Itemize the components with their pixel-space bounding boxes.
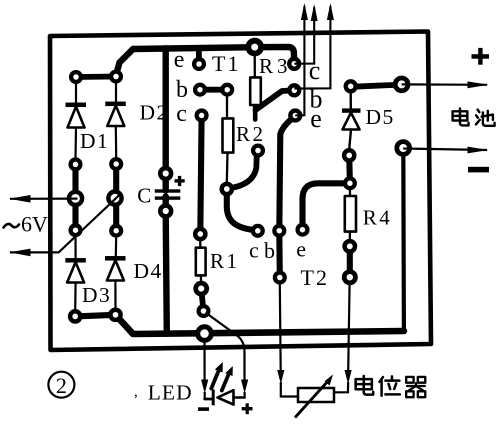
LED symbol — [198, 362, 253, 414]
svg-text:R1: R1 — [210, 249, 240, 273]
svg-text:e: e — [296, 236, 306, 261]
label 电池 (battery) — [453, 108, 495, 125]
pad D4 bottom — [110, 310, 120, 320]
diode D2 — [105, 81, 126, 159]
pad T2 e — [298, 225, 308, 235]
label ~6V — [4, 224, 20, 228]
wire R3 bottom stub — [253, 104, 258, 120]
pad D5 bottom — [344, 150, 354, 160]
pad R2 bottom — [222, 184, 232, 194]
resistor R1 — [196, 240, 206, 283]
pad C bottom — [160, 206, 171, 217]
wire T1 e stub — [196, 49, 202, 65]
svg-text:e: e — [174, 47, 185, 73]
svg-text:D5: D5 — [366, 105, 395, 129]
svg-text:C: C — [137, 184, 151, 208]
wire D5 bottom to pad35 — [346, 155, 353, 183]
svg-text:6V: 6V — [21, 211, 48, 236]
wire T1 b pads — [200, 87, 227, 93]
pad R4 bottom1 — [345, 241, 355, 251]
battery plus symbol — [472, 48, 490, 65]
svg-text:LED: LED — [148, 381, 193, 405]
wire e-right down to T2 b col — [279, 117, 295, 278]
wire top arrow e (line 1) — [295, 6, 304, 115]
wire ~6V lower diagonal — [10, 194, 121, 253]
wire minus pad vertical — [401, 148, 406, 331]
pad D4 top — [111, 226, 121, 236]
LED — [205, 398, 212, 401]
potentiometer body — [298, 388, 334, 402]
svg-text:2: 2 — [56, 373, 67, 398]
wire D3-D4 bottom pads — [75, 315, 115, 317]
pad T2 b — [274, 226, 284, 236]
pad D2 top — [111, 72, 121, 82]
svg-text:b: b — [264, 238, 275, 263]
svg-text:R2: R2 — [236, 122, 266, 146]
pad R1 bottom — [196, 283, 207, 294]
pad D2 bottom — [111, 159, 121, 169]
pad T2 c — [253, 226, 263, 236]
pad LED feed — [199, 306, 209, 316]
diode D5 — [342, 92, 361, 150]
svg-text:R4: R4 — [363, 206, 393, 230]
resistor R4 — [345, 189, 356, 241]
svg-text:D4: D4 — [134, 259, 163, 283]
wire ~6V upper — [10, 198, 78, 200]
svg-text:c: c — [249, 237, 259, 262]
wire R1 lower pads — [201, 289, 203, 311]
wire D2 pad riser — [116, 49, 133, 75]
pad D1 bottom — [71, 160, 81, 170]
svg-text:b: b — [176, 77, 188, 103]
figure number circle 2 — [48, 372, 74, 398]
pad D3 bottom — [70, 311, 80, 321]
wire T2 e elbow to pad35 — [303, 183, 350, 229]
pad on minus trace big — [198, 327, 212, 341]
pad T1 b right — [222, 85, 232, 95]
potentiometer arrow — [295, 381, 328, 418]
wire pot left lead — [279, 284, 282, 371]
wire R4 lower pads — [347, 246, 353, 277]
wire pot right lead — [348, 284, 349, 372]
diode D4 — [105, 236, 126, 309]
pad plus out big — [395, 78, 408, 91]
wire top arrow c (line 2) — [294, 7, 314, 64]
svg-text:D1: D1 — [80, 129, 109, 153]
pad C top — [160, 168, 171, 179]
pad R3 top big — [248, 41, 261, 54]
wire LED left lead — [203, 340, 205, 380]
wire R2 pad arc up to pad26 — [227, 156, 257, 189]
capacitor C — [155, 176, 185, 200]
pad AC left big — [69, 192, 82, 205]
svg-text:c: c — [309, 56, 321, 85]
pad e right — [290, 111, 300, 121]
pad b right — [289, 85, 299, 95]
pad 26 below R3 — [253, 146, 263, 156]
wire plus output arrow — [402, 83, 487, 86]
pad R1 top — [195, 229, 205, 239]
pad c right — [289, 59, 299, 69]
COMPONENT SYMBOLS & THIN LINES — [65, 53, 360, 311]
resistor R3 — [250, 53, 261, 105]
PADS — [69, 41, 410, 341]
diode D1 — [66, 81, 87, 159]
svg-text:e: e — [310, 104, 322, 133]
wire D5 top to plus pad — [351, 85, 402, 87]
diode D3 — [65, 236, 86, 311]
potentiometer — [295, 375, 334, 418]
pad minus out big — [397, 142, 410, 155]
pad below T2 b — [275, 273, 285, 283]
label 电位器 (potentiometer) — [356, 376, 426, 397]
pad elbow R4 top — [345, 178, 355, 188]
wire top arrow b (line 3) — [294, 6, 330, 89]
wire D2 col mid — [113, 164, 119, 231]
svg-text:,: , — [134, 384, 138, 400]
battery minus symbol — [468, 167, 489, 173]
wire R2 pad curve to T2 c — [227, 189, 258, 231]
svg-text:c: c — [176, 101, 187, 127]
pad AC right big — [108, 192, 121, 205]
pad R4 bottom2 — [344, 272, 355, 283]
pad T1 c — [197, 111, 207, 121]
pad T1 e — [194, 59, 204, 69]
svg-text:D2: D2 — [140, 100, 169, 124]
wire C column branch — [162, 48, 168, 190]
wire minus output arrow — [403, 149, 487, 151]
pad D1 top — [71, 72, 81, 82]
svg-text:D3: D3 — [82, 283, 111, 307]
wire D1-D2 top pads — [76, 74, 116, 80]
wire T1 c column — [200, 115, 201, 234]
board outline — [50, 32, 431, 351]
wire R3 diagonal to b pad — [256, 90, 295, 110]
resistor R2 — [223, 95, 234, 183]
wire top trace — [133, 47, 294, 64]
wire D1 col mid — [72, 164, 78, 230]
svg-text:T1: T1 — [212, 51, 240, 76]
pad T1 b left — [195, 85, 205, 95]
svg-text:T2: T2 — [301, 265, 329, 290]
pad D3 top — [71, 225, 81, 235]
wire LED right feed diagonal — [206, 313, 245, 381]
svg-text:R3: R3 — [259, 54, 292, 78]
wire bottom minus trace — [116, 315, 405, 334]
pad D5 top — [346, 81, 356, 91]
